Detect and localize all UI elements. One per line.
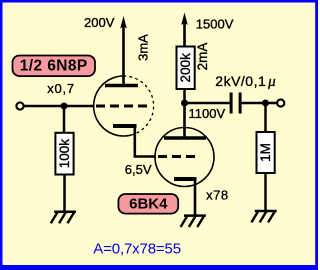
triode V1 envelope solid half — [94, 76, 132, 136]
svg-text:1500V: 1500V — [196, 16, 234, 31]
wire junction down to R1 — [63, 106, 66, 133]
wire R1 to ground — [63, 175, 66, 213]
label 1/2 6N8P — [13, 56, 96, 77]
node junction input/R1 — [61, 103, 68, 110]
arrow to 1500V — [181, 13, 188, 26]
V2 grid (dashed) — [158, 155, 198, 158]
output terminal — [277, 99, 284, 106]
svg-text:6BK4: 6BK4 — [129, 195, 168, 212]
wire R3 to ground — [264, 173, 267, 211]
svg-text:200k: 200k — [178, 53, 193, 83]
wire R2 top to arrow — [183, 23, 186, 47]
svg-text:x78: x78 — [206, 188, 229, 203]
arrow to 200V — [120, 16, 127, 29]
triode V1 envelope dashed half — [124, 76, 154, 135]
wire node down to R3 — [264, 103, 267, 132]
V1 plate — [105, 84, 138, 88]
input terminal — [16, 102, 23, 109]
capacitor C1 — [231, 93, 240, 114]
wire R2 bottom to node — [183, 89, 186, 104]
svg-text:1/2 6N8P: 1/2 6N8P — [20, 57, 88, 74]
wire cathode V1 to grid V2 — [135, 155, 156, 158]
node output junction — [262, 100, 269, 107]
V2 plate — [164, 136, 206, 140]
ground G3 — [251, 211, 276, 222]
ground G1 — [51, 212, 76, 223]
node plate V2 / R2 / C1 — [181, 100, 188, 107]
wire node to C1 — [185, 102, 230, 105]
wire input to grid V1 — [24, 105, 94, 108]
wire V2 cathode to ground — [194, 179, 197, 216]
wire V1 cathode down — [134, 126, 137, 158]
resistor R1 100k — [55, 133, 73, 175]
svg-text:A=0,7x78=55: A=0,7x78=55 — [93, 241, 181, 258]
svg-text:200V: 200V — [84, 15, 115, 30]
svg-text:100k: 100k — [57, 139, 72, 169]
svg-text:1100V: 1100V — [189, 106, 226, 121]
resistor R2 200k — [177, 47, 195, 90]
svg-text:2mA: 2mA — [195, 43, 210, 71]
V2 plate lead up to node — [183, 102, 186, 138]
svg-text:6,5V: 6,5V — [125, 162, 152, 177]
V1 cathode — [113, 124, 137, 128]
V1 grid (dashed) — [96, 105, 152, 108]
V2 cathode — [174, 177, 197, 181]
svg-text:3mA: 3mA — [135, 34, 150, 61]
svg-text:1M: 1M — [258, 143, 273, 162]
label 6BK4 — [118, 194, 178, 214]
triode V2 envelope — [155, 128, 214, 187]
V1 plate lead up — [122, 26, 125, 86]
svg-text:x0,7: x0,7 — [47, 81, 75, 96]
wire C1 to output node — [242, 102, 278, 105]
ground G2 — [181, 216, 206, 227]
svg-text:2kV/0,1 μ: 2kV/0,1 μ — [215, 73, 276, 90]
resistor R3 1M — [257, 132, 275, 173]
